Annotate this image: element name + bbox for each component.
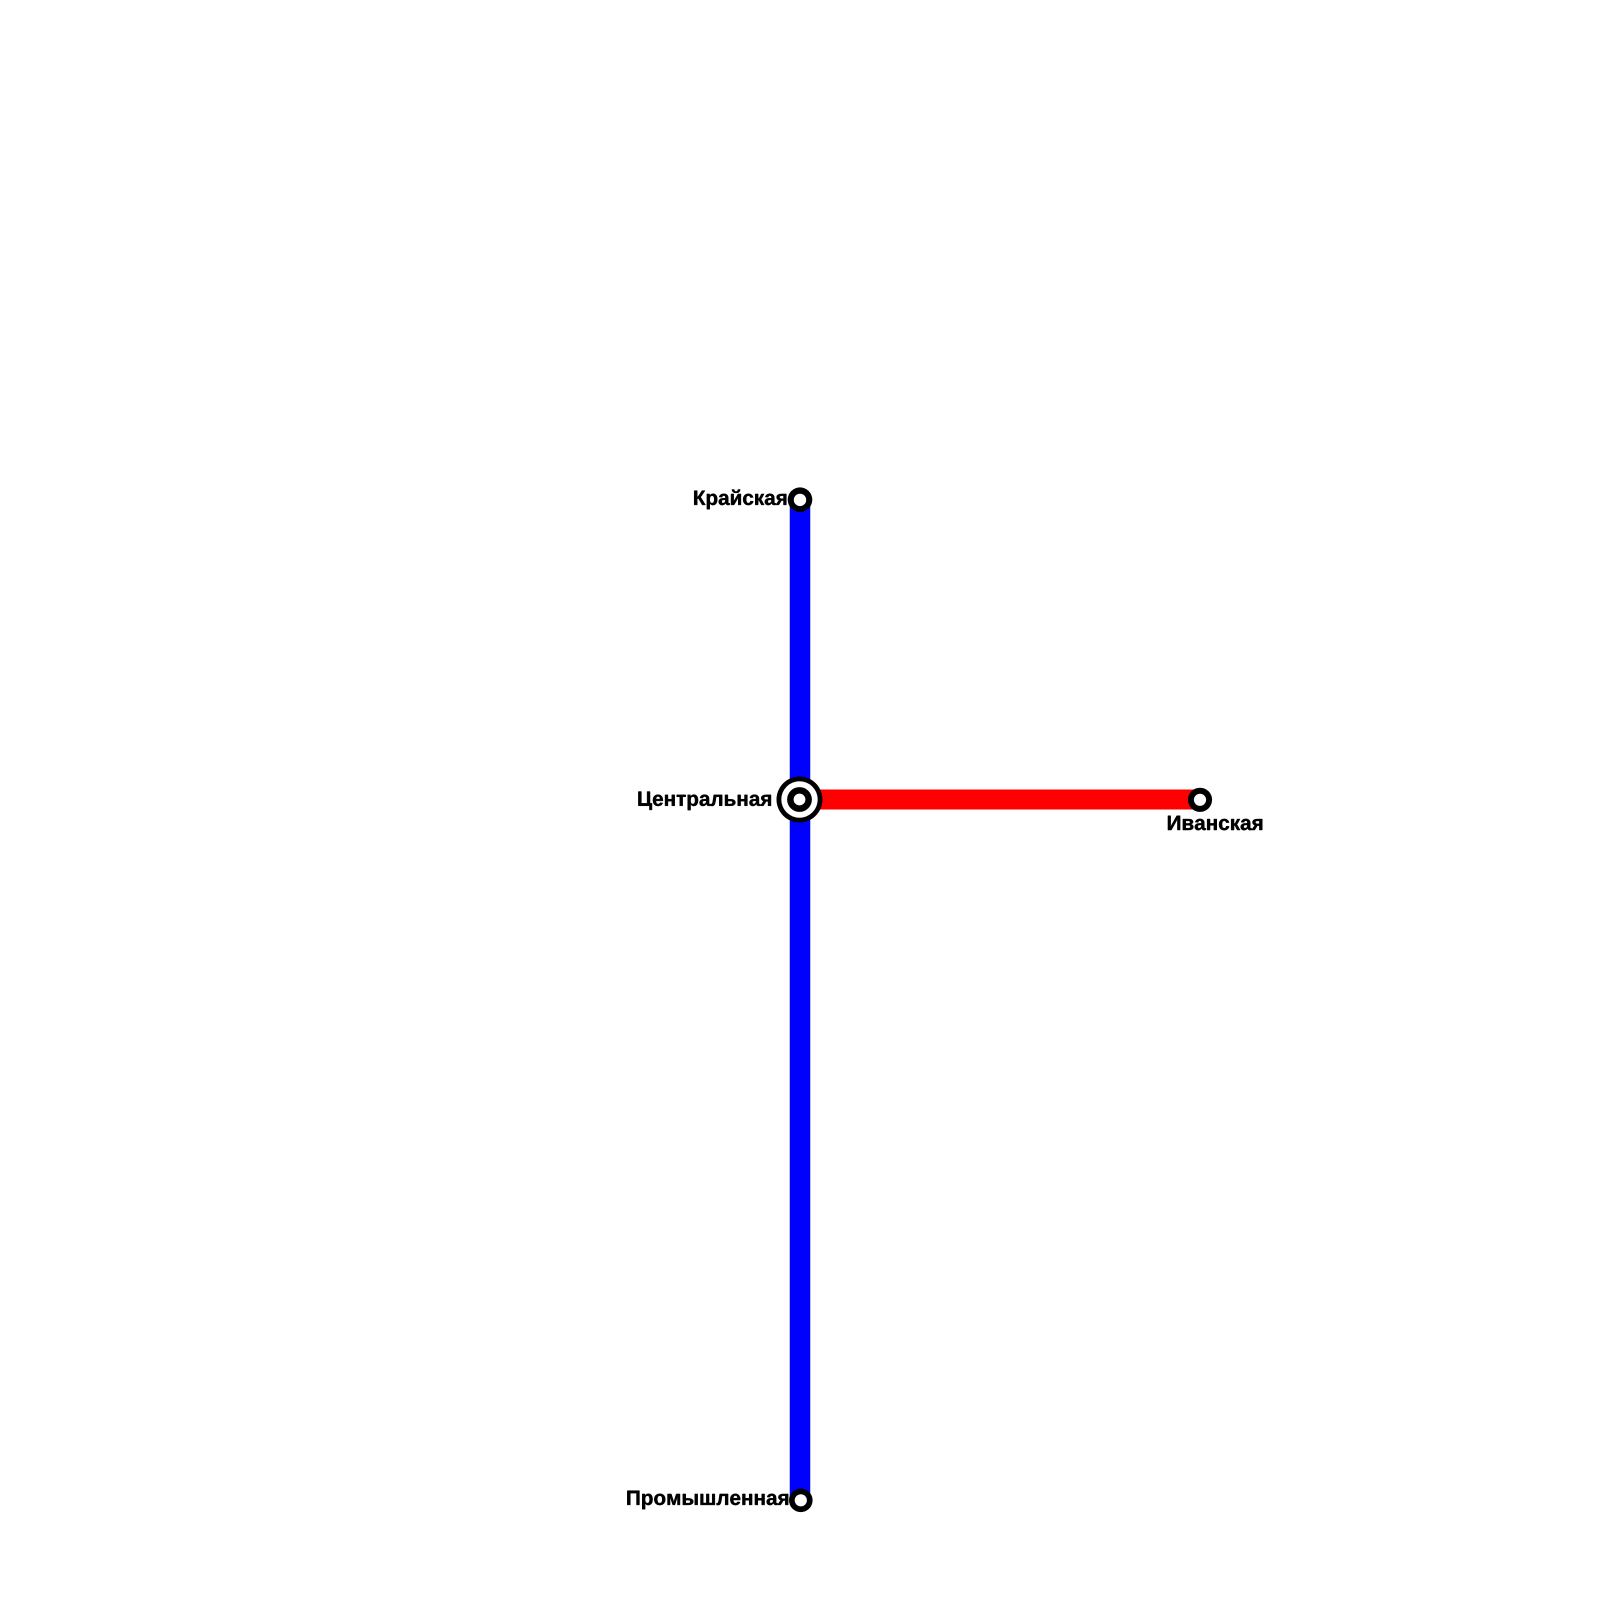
interchange Центральная double circle xyxy=(777,777,823,823)
station Центральная label xyxy=(638,792,771,811)
station Крайская label xyxy=(694,490,786,510)
red line (Центральная - Иванская) xyxy=(800,790,1200,810)
station Иванская label xyxy=(1168,816,1262,830)
station Иванская circle xyxy=(1188,788,1212,812)
station Промышленная label xyxy=(627,1491,788,1510)
station Крайская circle xyxy=(788,487,813,512)
station Промышленная circle xyxy=(789,1489,813,1513)
blue line (Крайская - Центральная - Промышленная) xyxy=(790,500,811,1501)
